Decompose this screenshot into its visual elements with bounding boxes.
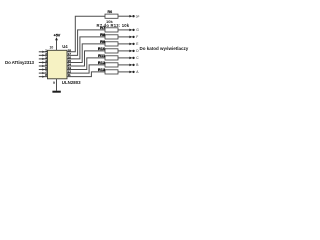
resistor R7 <box>105 28 135 32</box>
svg-text:F: F <box>136 35 138 39</box>
wire GND pin 9 <box>56 79 58 91</box>
resistor R8 <box>105 35 135 39</box>
svg-text:B: B <box>136 63 139 67</box>
svg-text:R6: R6 <box>108 10 113 14</box>
wire output pin 17 to row G <box>67 30 105 55</box>
wire input pin 8 <box>39 76 48 78</box>
svg-text:Do ATtiny2313: Do ATtiny2313 <box>5 60 34 65</box>
wire input pin 4 <box>39 61 48 63</box>
wire output pin 14 to row D <box>67 51 105 66</box>
resistor R11 <box>105 56 135 60</box>
resistor R13 <box>105 70 135 74</box>
svg-text:R13: R13 <box>98 67 106 72</box>
svg-text:R11: R11 <box>98 53 106 58</box>
svg-text:C: C <box>136 56 139 60</box>
power arrow <box>55 37 58 40</box>
svg-text:+5V: +5V <box>54 33 61 37</box>
wire output pin 12 to row B <box>67 65 105 73</box>
wire input pin 3 <box>39 58 48 60</box>
svg-text:9: 9 <box>53 81 55 85</box>
svg-text:DP: DP <box>136 14 140 18</box>
wire input pin 2 <box>39 54 48 56</box>
svg-text:R9: R9 <box>100 39 106 44</box>
svg-text:A: A <box>136 70 139 74</box>
wire input pin 7 <box>39 72 48 74</box>
wire output pin 16 to row F <box>67 37 105 59</box>
svg-text:ULN2803: ULN2803 <box>62 80 81 85</box>
resistor R10 <box>105 49 135 53</box>
svg-text:R12: R12 <box>98 60 106 65</box>
wire input pin 5 <box>39 65 48 67</box>
wire output pin 13 to row C <box>67 58 105 70</box>
resistor R6 <box>105 14 135 18</box>
wire input pin 1 <box>39 51 48 53</box>
svg-text:R8: R8 <box>100 32 106 37</box>
wire COM pin 10 <box>56 40 58 50</box>
svg-text:R10: R10 <box>98 46 106 51</box>
resistor R9 <box>105 42 135 46</box>
wire output pin 15 to row E <box>67 44 105 63</box>
wire output pin 18 to row DP <box>67 16 105 52</box>
svg-text:G: G <box>136 28 139 32</box>
svg-text:Do katod wyświetlaczy: Do katod wyświetlaczy <box>140 46 189 51</box>
svg-text:R7: R7 <box>100 25 106 30</box>
wire output pin 11 to row A <box>67 72 105 77</box>
svg-text:10: 10 <box>50 45 54 49</box>
wire input pin 6 <box>39 69 48 71</box>
resistor R12 <box>105 63 135 67</box>
ground <box>52 91 60 93</box>
IC U4 body ULN2803 <box>48 50 68 79</box>
